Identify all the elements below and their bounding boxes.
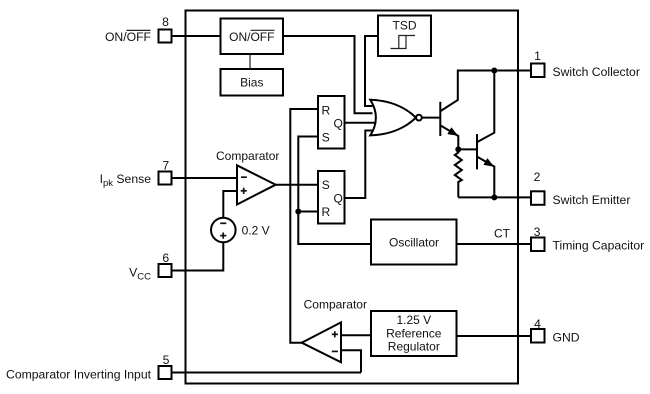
svg-text:0.2 V: 0.2 V bbox=[242, 223, 270, 237]
svg-text:Bias: Bias bbox=[240, 75, 263, 89]
svg-text:Regulator: Regulator bbox=[388, 340, 440, 354]
svg-text:Ipk Sense: Ipk Sense bbox=[100, 172, 152, 189]
svg-text:Q: Q bbox=[334, 116, 343, 130]
svg-text:CT: CT bbox=[494, 227, 511, 241]
svg-text:Switch Emitter: Switch Emitter bbox=[553, 193, 631, 207]
svg-text:TSD: TSD bbox=[393, 19, 417, 33]
svg-text:GND: GND bbox=[553, 331, 580, 345]
svg-text:Q: Q bbox=[334, 192, 343, 206]
svg-text:S: S bbox=[322, 131, 330, 145]
svg-text:Reference: Reference bbox=[386, 326, 442, 340]
svg-text:R: R bbox=[321, 205, 330, 219]
svg-text:8: 8 bbox=[162, 15, 169, 29]
svg-text:3: 3 bbox=[534, 225, 541, 239]
svg-text:S: S bbox=[322, 178, 330, 192]
svg-text:ON/OFF: ON/OFF bbox=[229, 30, 274, 44]
svg-text:VCC: VCC bbox=[129, 266, 151, 283]
svg-text:4: 4 bbox=[534, 317, 541, 331]
svg-text:2: 2 bbox=[534, 170, 541, 184]
svg-text:1: 1 bbox=[534, 49, 541, 63]
svg-text:6: 6 bbox=[162, 251, 169, 265]
svg-text:R: R bbox=[321, 103, 330, 117]
svg-text:Comparator: Comparator bbox=[216, 149, 279, 163]
svg-text:Switch Collector: Switch Collector bbox=[553, 65, 640, 79]
svg-text:Oscillator: Oscillator bbox=[389, 235, 439, 249]
svg-text:5: 5 bbox=[163, 353, 170, 367]
svg-text:Comparator: Comparator bbox=[304, 298, 367, 312]
svg-text:Comparator Inverting Input: Comparator Inverting Input bbox=[6, 368, 152, 382]
svg-text:ON/OFF: ON/OFF bbox=[105, 30, 151, 44]
svg-text:1.25 V: 1.25 V bbox=[396, 313, 431, 327]
svg-text:7: 7 bbox=[162, 158, 169, 172]
svg-text:Timing Capacitor: Timing Capacitor bbox=[553, 239, 645, 253]
